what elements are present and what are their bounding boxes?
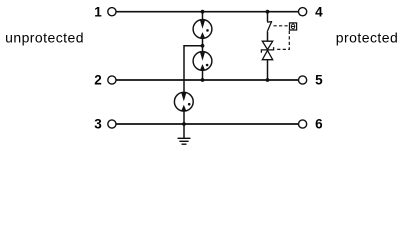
svg-text:5: 5	[315, 73, 323, 88]
svg-text:2: 2	[94, 73, 102, 88]
svg-text:6: 6	[315, 117, 323, 132]
svg-text:4: 4	[315, 5, 323, 20]
svg-text:unprotected: unprotected	[5, 30, 84, 46]
svg-text:3: 3	[94, 117, 102, 132]
svg-text:1: 1	[94, 5, 102, 20]
svg-text:protected: protected	[336, 30, 398, 46]
